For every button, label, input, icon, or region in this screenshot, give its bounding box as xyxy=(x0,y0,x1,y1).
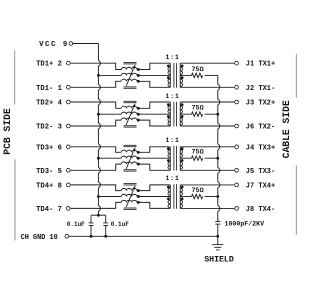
wire choke L3 centre to transformer T3 centre tap xyxy=(138,157,170,159)
wire VCC rail to choke L1 centre xyxy=(98,74,121,76)
wire transformer T2 to J6 TX2- xyxy=(180,125,234,127)
pin J7 TX4+ xyxy=(235,183,239,187)
capacitor C2 0.1uF xyxy=(105,215,107,223)
left border line lower xyxy=(14,160,16,241)
choke L4 centre winding dot xyxy=(137,195,140,198)
svg-text:J6 TX2-: J6 TX2- xyxy=(246,124,275,132)
wire choke L1 centre to transformer T1 centre tap xyxy=(138,74,170,76)
svg-text:SHIELD: SHIELD xyxy=(204,256,234,265)
junction shield node xyxy=(216,235,219,238)
svg-text:75Ω: 75Ω xyxy=(191,66,203,74)
resistor R4 zigzag xyxy=(192,194,203,198)
wire choke L2 bottom to transformer T2 xyxy=(138,120,170,126)
transformer T3 secondary dots xyxy=(181,147,184,150)
resistor R1 zigzag xyxy=(192,73,203,77)
wire transformer T3 to J5 TX3- xyxy=(180,169,234,171)
choke L1 centre winding xyxy=(121,73,137,75)
svg-text:PCB SIDE: PCB SIDE xyxy=(2,108,13,155)
transformer T3 primary winding xyxy=(169,147,171,171)
wire TD4- 7 to choke L4 xyxy=(71,202,122,208)
resistor R2 zigzag xyxy=(192,112,203,116)
capacitor C1 0.1uF xyxy=(90,215,92,223)
wire TD2- 3 to choke L2 xyxy=(71,120,122,126)
right border line lower xyxy=(295,165,297,234)
transformer T3 core xyxy=(173,146,175,171)
wire transformer T3 to J4 TX3+ xyxy=(180,146,234,148)
junction VCC rail to choke centre winding xyxy=(97,195,100,198)
junction R4 to rail xyxy=(216,195,219,198)
wire transformer T4 to J8 TX4- xyxy=(180,207,234,209)
svg-text:TD2+ 4: TD2+ 4 xyxy=(36,100,63,108)
transformer T2 primary winding xyxy=(169,102,171,126)
capacitor C3 1000pF/2KV xyxy=(215,221,220,223)
svg-text:1:1: 1:1 xyxy=(165,93,179,100)
transformer T2 core xyxy=(173,102,175,127)
choke L4 arrow xyxy=(126,190,133,207)
wire choke L2 centre to transformer T2 centre tap xyxy=(138,113,170,115)
termination common rail xyxy=(218,75,220,221)
transformer T4 primary dots xyxy=(167,186,170,189)
wire transformer T2 to J3 TX2+ xyxy=(180,101,234,103)
junction R2 to rail xyxy=(216,113,219,116)
wire choke L4 top to transformer T4 xyxy=(138,185,170,191)
choke L3 top winding xyxy=(121,150,137,152)
wire transformer T2 centre tap to R2 xyxy=(180,113,191,115)
choke L4 top winding dot xyxy=(137,189,140,192)
svg-text:J3 TX2+: J3 TX2+ xyxy=(246,100,275,108)
wire R4 to common rail xyxy=(205,196,218,198)
svg-text:TD1- 1: TD1- 1 xyxy=(36,85,63,93)
left border line upper xyxy=(14,51,16,105)
choke L2 centre winding dot xyxy=(137,113,140,116)
transformer T4 core xyxy=(173,184,175,209)
svg-text:1:1: 1:1 xyxy=(165,137,179,144)
common-mode choke L4 core xyxy=(124,183,137,185)
svg-text:1:1: 1:1 xyxy=(165,175,179,182)
wire VCC rail to choke L3 centre xyxy=(98,157,121,159)
choke L2 centre winding xyxy=(121,112,137,114)
choke L4 bottom winding xyxy=(121,200,137,202)
svg-text:CH GND 10: CH GND 10 xyxy=(21,234,58,242)
choke L3 centre winding dot xyxy=(137,157,140,160)
pin J8 TX4- xyxy=(235,207,239,211)
wire choke L4 centre to transformer T4 centre tap xyxy=(138,196,170,198)
junction VCC rail to choke centre winding xyxy=(97,74,100,77)
choke L2 arrow xyxy=(126,108,133,125)
wire choke L1 bottom to transformer T1 xyxy=(138,81,170,87)
resistor R3 zigzag xyxy=(192,156,203,160)
transformer T1 secondary dots xyxy=(181,65,184,68)
transformer T2 secondary winding xyxy=(179,102,181,126)
wire choke L4 bottom to transformer T4 xyxy=(138,202,170,208)
wire TD4+ 8 to choke L4 xyxy=(71,185,122,191)
wire R1 to common rail xyxy=(205,74,218,76)
common-mode choke L1 core xyxy=(124,62,137,64)
choke L1 top winding xyxy=(121,67,137,69)
transformer T4 secondary dots xyxy=(181,186,184,189)
junction VCC rail to choke centre winding xyxy=(97,113,100,116)
junction R3 to rail xyxy=(216,157,219,160)
svg-text:TD1+ 2: TD1+ 2 xyxy=(36,61,62,69)
svg-text:J2 TX1-: J2 TX1- xyxy=(246,85,275,93)
choke L3 top winding dot xyxy=(137,151,140,154)
choke L1 centre winding dot xyxy=(137,74,140,77)
svg-text:VCC 9: VCC 9 xyxy=(39,41,69,49)
junction C2 to ground xyxy=(104,235,107,238)
wire TD2+ 4 to choke L2 xyxy=(71,102,122,108)
pin J6 TX2- xyxy=(235,124,239,128)
transformer T2 primary dots xyxy=(167,103,170,106)
common-mode choke L3 core xyxy=(124,144,137,146)
wire transformer T1 to J2 TX1- xyxy=(180,86,234,88)
svg-text:75Ω: 75Ω xyxy=(191,187,203,195)
svg-text:TD2- 3: TD2- 3 xyxy=(36,124,62,132)
svg-text:J4 TX3+: J4 TX3+ xyxy=(246,144,275,152)
transformer T1 primary winding xyxy=(169,63,171,87)
choke L4 centre winding xyxy=(121,194,137,196)
choke L1 bottom winding dot xyxy=(137,80,140,83)
junction VCC rail to choke centre winding xyxy=(97,157,100,160)
svg-text:J8 TX4-: J8 TX4- xyxy=(246,206,275,214)
choke L3 bottom winding xyxy=(121,162,137,164)
wire choke L3 top to transformer T3 xyxy=(138,147,170,153)
pin J5 TX3- xyxy=(235,168,239,172)
svg-text:TD4- 7: TD4- 7 xyxy=(36,206,62,214)
wire VCC rail to decoupling caps xyxy=(91,214,106,216)
svg-text:0.1uF: 0.1uF xyxy=(111,221,129,228)
wire R3 to common rail xyxy=(205,157,218,159)
choke L2 top winding xyxy=(121,106,137,108)
wire TD1+ 2 to choke L1 xyxy=(71,63,122,69)
wire choke L1 top to transformer T1 xyxy=(138,63,170,69)
choke L3 bottom winding dot xyxy=(137,163,140,166)
wire TD3+ 6 to choke L3 xyxy=(71,147,122,153)
choke L2 bottom winding dot xyxy=(137,119,140,122)
svg-text:J7 TX4+: J7 TX4+ xyxy=(246,182,275,190)
chassis ground wire xyxy=(69,235,218,237)
wire transformer T3 centre tap to R3 xyxy=(180,157,191,159)
wire R2 to common rail xyxy=(205,113,218,115)
wire transformer T4 to J7 TX4+ xyxy=(180,184,234,186)
svg-text:75Ω: 75Ω xyxy=(191,105,203,113)
VCC center-tap rail xyxy=(98,44,100,216)
transformer T3 secondary winding xyxy=(179,147,181,171)
pin J3 TX2+ xyxy=(235,100,239,104)
wire transformer T1 centre tap to R1 xyxy=(180,74,191,76)
svg-text:J1 TX1+: J1 TX1+ xyxy=(246,61,275,69)
wire VCC to rail xyxy=(73,43,99,45)
common-mode choke L2 core xyxy=(124,100,137,102)
svg-text:TD4+ 8: TD4+ 8 xyxy=(36,182,62,190)
transformer T3 primary dots xyxy=(167,147,170,150)
right border line upper xyxy=(295,54,297,98)
choke L1 arrow xyxy=(126,69,133,86)
choke L3 centre winding xyxy=(121,156,137,158)
wire transformer T1 to J1 TX1+ xyxy=(180,62,234,64)
svg-text:0.1uF: 0.1uF xyxy=(67,221,85,228)
svg-text:TD3- 5: TD3- 5 xyxy=(36,168,62,176)
choke L4 bottom winding dot xyxy=(137,201,140,204)
junction C1 to ground xyxy=(90,235,93,238)
choke L4 top winding xyxy=(121,188,137,190)
pin J1 TX1+ xyxy=(235,61,239,65)
wire VCC rail to choke L2 centre xyxy=(98,113,121,115)
transformer T1 secondary winding xyxy=(179,63,181,87)
ground (shield) xyxy=(217,236,219,244)
transformer T4 secondary winding xyxy=(179,185,181,209)
wire choke L3 bottom to transformer T3 xyxy=(138,164,170,170)
transformer T1 core xyxy=(173,63,175,88)
transformer T1 primary dots xyxy=(167,65,170,68)
pin J4 TX3+ xyxy=(235,145,239,149)
svg-text:J5 TX3-: J5 TX3- xyxy=(246,168,275,176)
wire TD3- 5 to choke L3 xyxy=(71,164,122,170)
wire VCC rail to choke L4 centre xyxy=(98,196,121,198)
svg-text:TD3+ 6: TD3+ 6 xyxy=(36,144,62,152)
svg-text:1000pF/2KV: 1000pF/2KV xyxy=(225,220,265,227)
choke L1 top winding dot xyxy=(137,68,140,71)
transformer T2 secondary dots xyxy=(181,103,184,106)
wire choke L2 top to transformer T2 xyxy=(138,102,170,108)
wire transformer T4 centre tap to R4 xyxy=(180,196,191,198)
transformer T4 primary winding xyxy=(169,185,171,209)
wire TD1- 1 to choke L1 xyxy=(71,81,122,87)
choke L2 top winding dot xyxy=(137,107,140,110)
svg-text:CABLE SIDE: CABLE SIDE xyxy=(281,100,292,158)
choke L3 arrow xyxy=(126,152,133,169)
choke L1 bottom winding xyxy=(121,79,137,81)
pin J2 TX1- xyxy=(235,85,239,89)
svg-text:75Ω: 75Ω xyxy=(191,149,203,157)
svg-text:1:1: 1:1 xyxy=(165,54,179,61)
choke L2 bottom winding xyxy=(121,118,137,120)
